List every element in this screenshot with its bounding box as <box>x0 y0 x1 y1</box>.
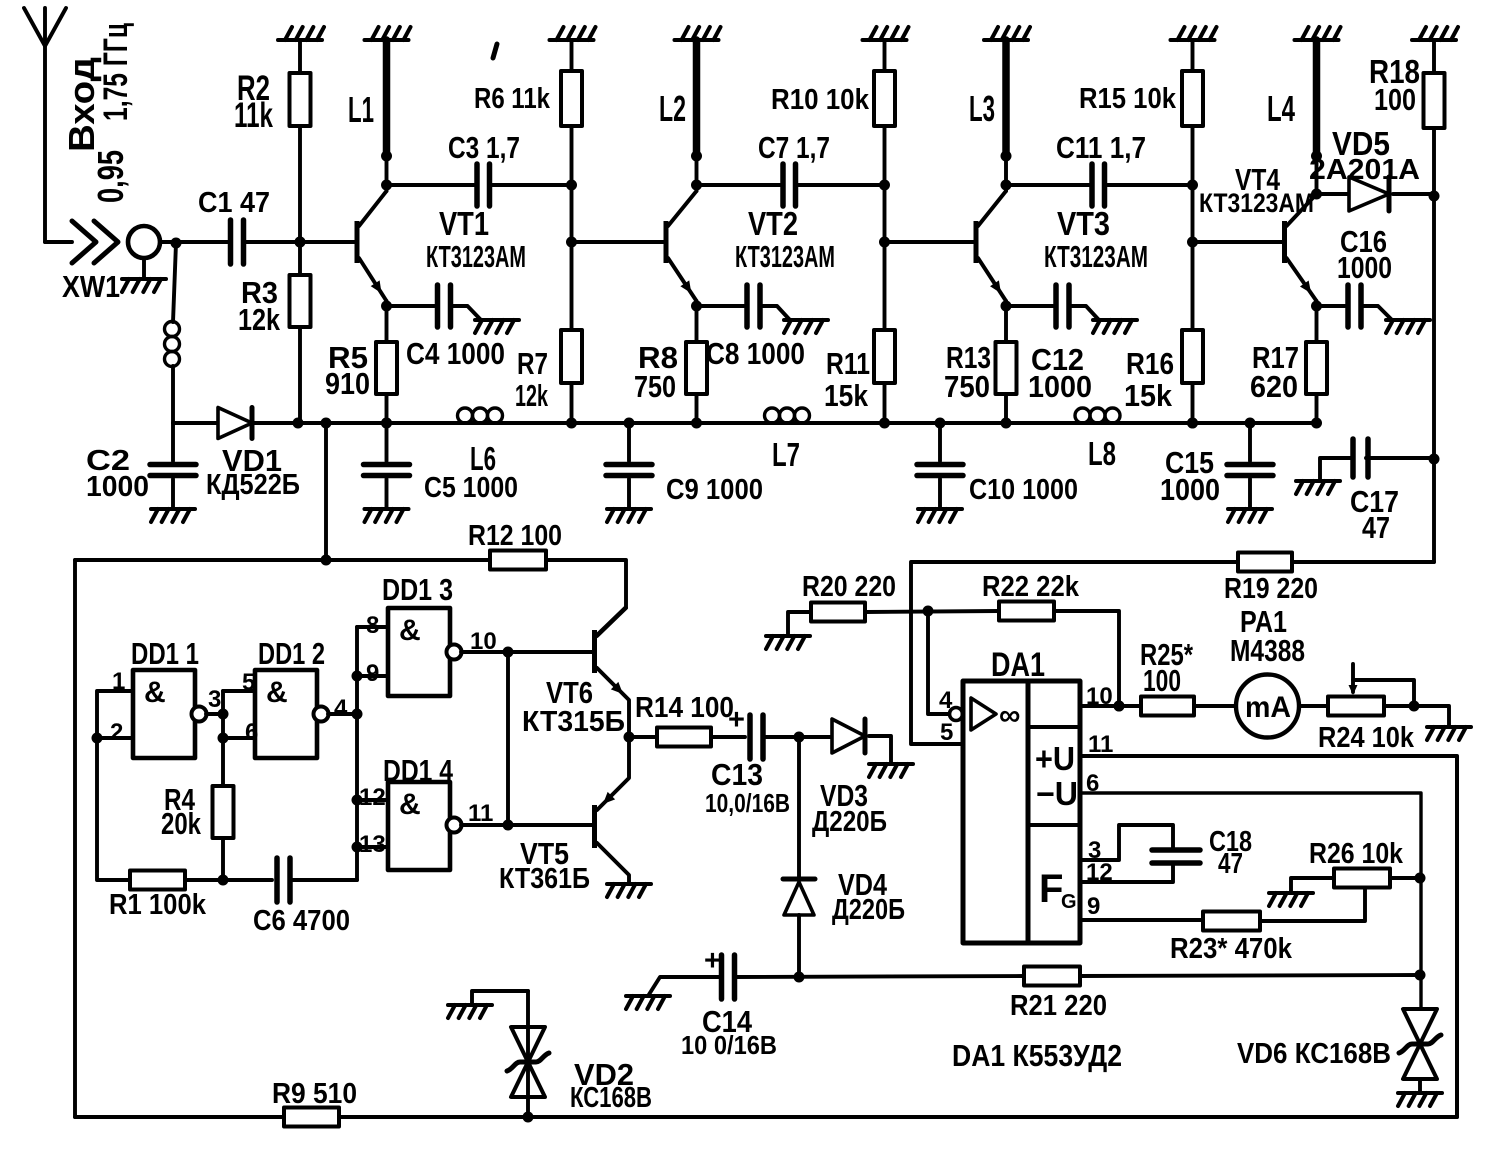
svg-text:C3 1,7: C3 1,7 <box>448 130 520 165</box>
svg-text:12: 12 <box>359 784 386 811</box>
svg-text:10 0/16В: 10 0/16В <box>681 1030 777 1060</box>
svg-text:R7: R7 <box>517 346 548 381</box>
svg-text:C13: C13 <box>711 757 763 792</box>
svg-text:Вход: Вход <box>61 57 102 152</box>
svg-text:DD1 1: DD1 1 <box>131 636 199 671</box>
svg-text:КТ315Б: КТ315Б <box>522 706 625 738</box>
svg-text:3: 3 <box>208 686 221 713</box>
svg-text:R9 510: R9 510 <box>272 1078 357 1110</box>
svg-text:DD1 2: DD1 2 <box>258 636 325 671</box>
svg-text:R11: R11 <box>826 346 870 381</box>
svg-text:9: 9 <box>366 660 379 687</box>
svg-text:&: & <box>266 676 288 709</box>
svg-text:+: + <box>704 945 721 977</box>
svg-text:R16: R16 <box>1126 346 1174 381</box>
svg-text:C9 1000: C9 1000 <box>666 474 763 506</box>
svg-text:R12 100: R12 100 <box>468 520 562 552</box>
svg-text:10: 10 <box>1086 683 1113 710</box>
svg-text:11: 11 <box>468 800 493 827</box>
svg-text:R10 10k: R10 10k <box>771 84 870 116</box>
svg-text:C11 1,7: C11 1,7 <box>1056 130 1146 165</box>
svg-text:L7: L7 <box>772 436 800 473</box>
svg-text:2A201A: 2A201A <box>1309 154 1420 186</box>
svg-text:R23* 470k: R23* 470k <box>1170 933 1293 965</box>
svg-text:750: 750 <box>634 369 676 404</box>
svg-text:DD1 3: DD1 3 <box>382 572 453 607</box>
svg-text:КС168В: КС168В <box>570 1082 652 1114</box>
svg-text:КД522Б: КД522Б <box>206 469 300 501</box>
svg-text:1000: 1000 <box>1160 472 1220 507</box>
svg-text:0,95: 0,95 <box>90 150 131 203</box>
svg-text:C7 1,7: C7 1,7 <box>758 130 830 165</box>
svg-text:12: 12 <box>1086 859 1113 886</box>
svg-text:6: 6 <box>1086 770 1099 797</box>
svg-text:8: 8 <box>366 612 379 639</box>
svg-text:C1 47: C1 47 <box>198 187 270 219</box>
svg-text:4: 4 <box>334 695 348 722</box>
svg-text:VD6 КС168В: VD6 КС168В <box>1237 1038 1391 1070</box>
svg-text:DA1: DA1 <box>991 646 1045 684</box>
svg-text:VT1: VT1 <box>439 205 489 242</box>
svg-text:+U: +U <box>1035 740 1075 777</box>
svg-text:11: 11 <box>1088 731 1113 758</box>
svg-text:F: F <box>1039 867 1063 911</box>
svg-text:11k: 11k <box>234 96 273 135</box>
svg-text:12k: 12k <box>515 378 548 413</box>
svg-text:2: 2 <box>110 719 123 746</box>
svg-text:13: 13 <box>359 831 386 858</box>
svg-text:КТ3123АМ: КТ3123АМ <box>1044 239 1148 274</box>
svg-text:&: & <box>399 614 421 647</box>
svg-text:R15 10k: R15 10k <box>1079 83 1177 115</box>
svg-text:G: G <box>1061 891 1077 913</box>
svg-text:C6 4700: C6 4700 <box>253 905 350 937</box>
svg-text:10: 10 <box>470 628 497 655</box>
svg-text:R14 100: R14 100 <box>635 692 734 724</box>
svg-text:910: 910 <box>325 366 370 401</box>
svg-text:L1: L1 <box>348 89 374 130</box>
svg-text:mA: mA <box>1245 691 1291 724</box>
svg-text:R21 220: R21 220 <box>1010 990 1107 1022</box>
svg-text:1000: 1000 <box>1028 369 1092 404</box>
svg-text:R6 11k: R6 11k <box>474 83 551 115</box>
svg-text:DD1 4: DD1 4 <box>383 753 454 788</box>
svg-text:M4388: M4388 <box>1230 633 1305 668</box>
svg-text:R19 220: R19 220 <box>1224 573 1318 605</box>
svg-text:КТ3123АМ: КТ3123АМ <box>735 239 835 274</box>
svg-text:∞: ∞ <box>999 699 1020 732</box>
svg-text:47: 47 <box>1362 510 1390 545</box>
svg-text:L8: L8 <box>1088 435 1116 472</box>
svg-text:15k: 15k <box>1124 378 1173 413</box>
svg-text:R22 22k: R22 22k <box>982 571 1080 603</box>
svg-text:L3: L3 <box>969 88 995 129</box>
svg-text:C4 1000: C4 1000 <box>406 336 505 371</box>
svg-text:&: & <box>399 788 421 821</box>
svg-text:1000: 1000 <box>86 471 149 503</box>
svg-text:R1 100k: R1 100k <box>109 889 207 921</box>
svg-text:5: 5 <box>940 719 953 746</box>
svg-text:1,75 ГГц: 1,75 ГГц <box>97 23 135 121</box>
svg-text:6: 6 <box>245 719 258 746</box>
svg-text:R26 10k: R26 10k <box>1309 838 1404 870</box>
svg-text:L6: L6 <box>470 440 496 477</box>
svg-text:R24 10k: R24 10k <box>1318 722 1415 754</box>
svg-text:КТ361Б: КТ361Б <box>499 863 590 895</box>
svg-text:DA1 К553УД2: DA1 К553УД2 <box>952 1038 1122 1073</box>
svg-text:10,0/16В: 10,0/16В <box>705 788 790 818</box>
svg-text:Д220Б: Д220Б <box>812 806 887 838</box>
svg-text:VT2: VT2 <box>748 205 798 242</box>
svg-text:750: 750 <box>944 369 990 404</box>
svg-text:Д220Б: Д220Б <box>832 894 905 926</box>
svg-text:100: 100 <box>1143 663 1181 698</box>
svg-text:12k: 12k <box>238 302 281 337</box>
svg-text:4: 4 <box>939 687 953 714</box>
svg-text:47: 47 <box>1218 848 1243 880</box>
svg-text:XW1: XW1 <box>62 269 120 304</box>
svg-text:C10 1000: C10 1000 <box>969 474 1078 506</box>
svg-text:КТ3123АМ: КТ3123АМ <box>1199 188 1314 218</box>
svg-text:C8 1000: C8 1000 <box>706 336 805 371</box>
svg-text:9: 9 <box>1087 893 1100 920</box>
svg-text:1: 1 <box>112 668 125 695</box>
svg-text:&: & <box>144 676 166 709</box>
svg-text:L2: L2 <box>659 88 686 129</box>
svg-text:620: 620 <box>1250 369 1298 404</box>
svg-text:100: 100 <box>1374 82 1416 117</box>
svg-text:5: 5 <box>242 669 255 696</box>
svg-text:КТ3123АМ: КТ3123АМ <box>426 239 526 274</box>
svg-text:−U: −U <box>1036 775 1078 812</box>
svg-text:L4: L4 <box>1267 88 1295 129</box>
svg-text:VT3: VT3 <box>1057 205 1110 242</box>
svg-text:R20 220: R20 220 <box>802 571 896 603</box>
svg-text:VT6: VT6 <box>546 675 593 710</box>
svg-text:1000: 1000 <box>1337 250 1392 285</box>
svg-text:20k: 20k <box>161 806 202 841</box>
svg-text:15k: 15k <box>824 378 869 413</box>
